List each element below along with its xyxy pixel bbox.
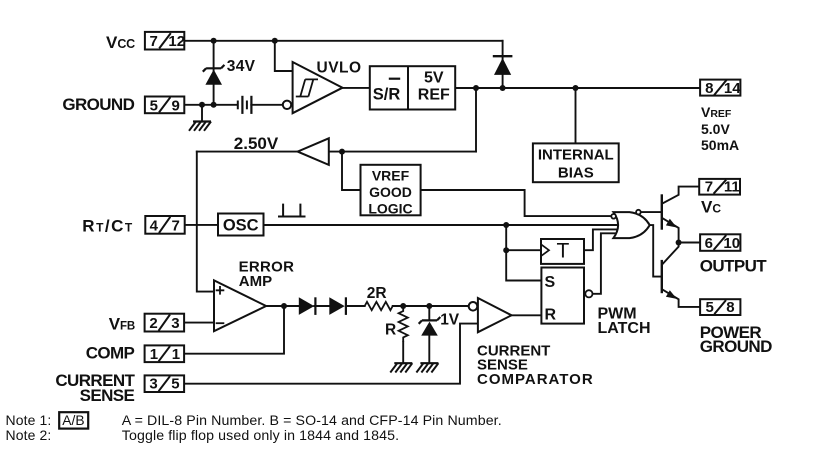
wire upper emitter xyxy=(663,218,679,242)
svg-text:14: 14 xyxy=(724,80,741,97)
op-amp UVLO comparator xyxy=(293,62,343,113)
wire latch Q out xyxy=(593,233,615,293)
block PWM latch xyxy=(541,268,584,324)
svg-text:RT/CT: RT/CT xyxy=(82,216,133,235)
block T flip flop xyxy=(541,239,584,264)
divider S/R vs 5V REF xyxy=(407,66,409,109)
svg-text:5.0V: 5.0V xyxy=(701,121,730,137)
wire diode1 to diode2 xyxy=(314,305,329,307)
svg-text:Note 2:: Note 2: xyxy=(6,427,52,443)
svg-text:1V: 1V xyxy=(440,311,460,328)
node dot R top xyxy=(400,303,406,309)
svg-text:5: 5 xyxy=(706,299,714,316)
node dot 2.5V tap xyxy=(339,149,345,155)
buffer 2.50V (points left) xyxy=(298,138,329,165)
pin 7/12 digits xyxy=(150,33,186,50)
node dot gnd-zener xyxy=(211,102,217,108)
svg-text:R: R xyxy=(545,307,557,324)
block S/R 5V REF xyxy=(370,66,455,109)
wire 1V top xyxy=(428,306,430,319)
wire VREF line xyxy=(455,87,700,89)
svg-text:5V: 5V xyxy=(424,69,444,86)
svg-text:S: S xyxy=(545,274,556,291)
svg-text:LATCH: LATCH xyxy=(598,320,651,337)
wire comparator out xyxy=(512,314,542,316)
diode D1 after error amp xyxy=(299,297,316,315)
wire vref good out xyxy=(421,190,612,216)
svg-text:A = DIL-8 Pin Number. B = SO-1: A = DIL-8 Pin Number. B = SO-14 and CFP-… xyxy=(122,413,502,429)
transistor Q1 base bar xyxy=(661,194,663,229)
svg-text:10: 10 xyxy=(723,235,740,252)
svg-text:GROUND: GROUND xyxy=(700,337,772,356)
pin box 8/14 xyxy=(700,80,740,96)
svg-text:REF: REF xyxy=(418,87,450,104)
wire gate out to lower base xyxy=(650,225,661,277)
svg-text:3: 3 xyxy=(149,376,157,393)
wire OSC out xyxy=(264,224,619,226)
svg-text:A/B: A/B xyxy=(62,413,84,428)
svg-text:8: 8 xyxy=(726,299,734,316)
svg-text:VC: VC xyxy=(701,197,721,216)
pin 2/3 digits xyxy=(149,315,179,332)
node dot gnd-earth xyxy=(199,102,205,108)
node dot output xyxy=(676,240,682,246)
clock waveform symbol xyxy=(278,204,306,217)
wire 2.5V line left xyxy=(197,151,298,153)
wire 2R to comparator xyxy=(393,305,469,307)
svg-text:3: 3 xyxy=(171,315,179,332)
pin box 6/10 xyxy=(700,234,740,251)
node bubble gate input from vref good xyxy=(611,214,616,219)
ground symbol below R xyxy=(390,363,412,372)
wire diode2 to 2R xyxy=(346,305,365,307)
wire R bottom xyxy=(402,342,404,363)
resistor 2R xyxy=(365,302,393,310)
wire output node xyxy=(679,242,701,244)
pin box 5/9 xyxy=(145,97,184,114)
node dot vcc-zener xyxy=(211,38,217,44)
pin box 7/11 xyxy=(699,179,740,195)
svg-text:1: 1 xyxy=(172,346,180,363)
wire ground rail xyxy=(185,104,238,106)
wire COMP drop xyxy=(184,306,284,354)
svg-text:VREF: VREF xyxy=(701,104,732,120)
block vref good logic xyxy=(361,165,421,216)
wire UVLO top feed xyxy=(275,41,293,71)
svg-text:GROUND: GROUND xyxy=(62,95,134,114)
svg-text:34V: 34V xyxy=(227,58,256,75)
svg-text:UVLO: UVLO xyxy=(317,59,362,76)
wire lower emitter xyxy=(663,290,700,307)
svg-text:T: T xyxy=(557,240,570,263)
diode vcc-vref clamp xyxy=(493,56,513,75)
wire UVLO out xyxy=(343,87,370,89)
block OSC xyxy=(218,214,264,236)
pin box 7/12 xyxy=(145,32,184,50)
wire 2.5V drop to error amp xyxy=(197,152,214,292)
transistor Q2 base bar xyxy=(661,260,663,293)
svg-text:2R: 2R xyxy=(367,285,387,302)
pin box 4/7 xyxy=(145,216,184,234)
node dot vcc-uvlo xyxy=(272,38,278,44)
label plus xyxy=(216,286,225,295)
pin 1/1 digits xyxy=(150,346,180,363)
svg-text:INTERNAL: INTERNAL xyxy=(538,147,614,164)
node dot T tap xyxy=(503,247,509,253)
pin 5/9 digits xyxy=(150,98,180,115)
svg-text:12: 12 xyxy=(168,33,185,50)
hysteresis symbol in UVLO xyxy=(296,79,318,96)
op-amp error amp xyxy=(214,280,266,331)
svg-text:11: 11 xyxy=(724,179,740,196)
svg-text:OUTPUT: OUTPUT xyxy=(700,257,768,276)
node bubble comparator inverting input xyxy=(469,302,478,311)
wire 2.5V feed xyxy=(475,88,477,152)
node dot vref-buffer xyxy=(473,85,479,91)
pin 6/10 digits xyxy=(705,235,740,252)
ground symbol below 1V xyxy=(416,363,438,372)
pin box 5/8 xyxy=(700,299,740,315)
svg-text:7: 7 xyxy=(172,217,180,234)
node dot osc line xyxy=(503,222,509,228)
wire RtCt to OSC xyxy=(185,224,218,226)
wire T in xyxy=(506,249,541,251)
pin box 1/1 xyxy=(145,345,185,362)
wire T out xyxy=(584,229,616,250)
node dot vref-diode xyxy=(500,85,506,91)
wire vref good tap xyxy=(342,152,361,190)
wire upper collector xyxy=(663,187,699,204)
svg-text:VCC: VCC xyxy=(106,33,135,52)
wire zener leg xyxy=(213,41,215,105)
wire VFB in xyxy=(184,322,214,324)
wire diode leg xyxy=(502,41,504,88)
wire gate to upper base xyxy=(641,211,661,213)
wire lower collector xyxy=(663,243,679,264)
wire battery to UVLO xyxy=(251,104,282,106)
svg-text:Toggle flip flop used only in: Toggle flip flop used only in 1844 and 1… xyxy=(122,428,399,444)
svg-text:2.50V: 2.50V xyxy=(234,134,279,153)
pin 7/11 digits xyxy=(705,179,740,196)
zener diode 34V xyxy=(203,65,225,85)
svg-text:7: 7 xyxy=(150,33,158,50)
ground symbol near 5/9 xyxy=(189,122,211,131)
note A/B box xyxy=(59,412,88,428)
wire ground stub xyxy=(201,105,203,121)
svg-text:OSC: OSC xyxy=(223,217,259,235)
wire Vcc rail xyxy=(184,40,502,42)
svg-text:5: 5 xyxy=(150,98,158,115)
pin 5/8 digits xyxy=(706,299,735,316)
wire internal bias feed xyxy=(575,88,577,143)
svg-text:R: R xyxy=(385,322,396,339)
svg-text:VREF: VREF xyxy=(372,167,410,183)
wire 1V bottom xyxy=(428,336,430,364)
svg-text:COMP: COMP xyxy=(86,343,135,362)
transistor Q2 emitter arrowhead xyxy=(666,290,677,299)
svg-text:SENSE: SENSE xyxy=(80,386,135,405)
diode D2 after error amp xyxy=(329,297,346,315)
svg-text:S/R: S/R xyxy=(373,86,401,104)
wire error amp out xyxy=(266,305,299,307)
T flipflop clock wedge xyxy=(541,244,549,256)
svg-text:COMPARATOR: COMPARATOR xyxy=(477,371,594,388)
wire current sense in xyxy=(184,324,478,384)
svg-text:50mA: 50mA xyxy=(701,137,739,153)
pin 8/14 digits xyxy=(705,80,741,97)
svg-text:Note 1:: Note 1: xyxy=(6,412,52,428)
pin 4/7 digits xyxy=(150,217,180,234)
battery offset symbol xyxy=(238,96,252,114)
label minus xyxy=(216,322,225,324)
node bubble UVLO inverting input xyxy=(283,101,291,109)
svg-text:AMP: AMP xyxy=(239,273,272,290)
node bubble latch Q output xyxy=(585,290,592,297)
pin 3/5 digits xyxy=(149,376,179,393)
svg-text:9: 9 xyxy=(172,98,180,115)
svg-text:7: 7 xyxy=(705,179,713,196)
svg-text:GOOD: GOOD xyxy=(369,184,412,200)
resistor R xyxy=(399,306,408,342)
svg-text:2: 2 xyxy=(149,315,157,332)
node dot 1V top xyxy=(426,303,432,309)
svg-text:8: 8 xyxy=(705,80,713,97)
pin box 3/5 xyxy=(145,375,185,392)
transistor Q1 emitter arrowhead xyxy=(666,219,677,228)
svg-text:BIAS: BIAS xyxy=(558,164,594,181)
svg-text:6: 6 xyxy=(705,235,713,252)
svg-text:VFB: VFB xyxy=(109,315,135,334)
wire 2.5V line right xyxy=(329,151,476,153)
gate NOR pwm xyxy=(613,212,649,238)
zener diode 1V xyxy=(419,317,441,336)
block internal bias xyxy=(533,143,619,182)
svg-text:LOGIC: LOGIC xyxy=(368,201,412,217)
node dot vref-bias xyxy=(573,85,579,91)
op-amp current sense comparator xyxy=(478,298,512,332)
node dot error amp out xyxy=(281,303,287,309)
wire S drop xyxy=(506,225,541,281)
pin box 2/3 xyxy=(145,314,185,332)
svg-text:4: 4 xyxy=(150,217,159,234)
node bubble gate top output xyxy=(636,210,641,215)
svg-text:1: 1 xyxy=(150,346,158,363)
svg-text:5: 5 xyxy=(171,376,179,393)
